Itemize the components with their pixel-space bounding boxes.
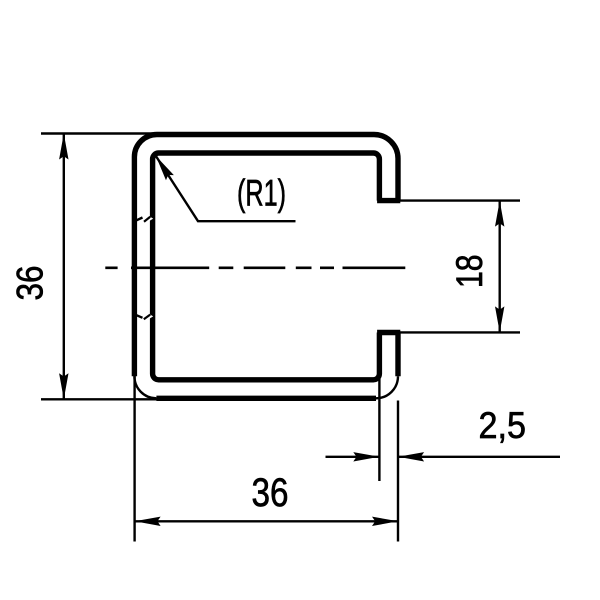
centerline (dash-dot horizontal axis) xyxy=(105,266,405,269)
wire: bottom dimension line xyxy=(135,520,398,522)
arrow up (left dim top) xyxy=(59,134,68,160)
arrow down (left dim bottom) xyxy=(59,373,68,399)
svg-text:36: 36 xyxy=(252,471,289,515)
wire: left dim top extension line xyxy=(41,132,160,134)
profile outer bottom-right corner arc (thin) xyxy=(376,376,398,398)
notch mark upper (inner left wall) xyxy=(137,216,154,222)
svg-text:36: 36 xyxy=(9,266,50,301)
profile inner contour (thick) xyxy=(153,153,380,380)
wire: left dimension line xyxy=(63,134,65,400)
arrow right (bottom dim) xyxy=(372,517,398,526)
arrow up (right dim top) xyxy=(495,201,504,227)
wire: bottom dim right extension line xyxy=(397,401,399,542)
svg-text:(R1): (R1) xyxy=(237,173,286,214)
svg-text:18: 18 xyxy=(449,255,490,289)
wire: right dim bottom extension line xyxy=(399,331,520,333)
svg-text:2,5: 2,5 xyxy=(479,405,527,446)
arrow left-pointing (2,5 right) xyxy=(398,452,424,461)
leader line of (R1) xyxy=(156,156,296,221)
wire: 2,5 dim line right part xyxy=(398,456,560,458)
profile outer right edge lower (thick) xyxy=(395,333,400,377)
profile top lip end cap xyxy=(377,198,400,203)
arrow right-pointing (2,5 left) xyxy=(353,452,379,461)
profile outer contour: right edge upper + top-right arc + top edge + top-left arc + left edge (thick) xyxy=(134,135,398,377)
profile bottom lip end cap xyxy=(377,330,400,335)
wire: 2,5 dim left extension line xyxy=(378,376,380,482)
wire: 2,5 dim line left part xyxy=(326,456,380,458)
arrow down (right dim bottom) xyxy=(495,306,504,332)
profile outer bottom edge (thick) xyxy=(156,396,376,401)
wire: right dim top extension line xyxy=(399,199,520,201)
notch mark lower (inner left wall) xyxy=(137,313,154,319)
wire: bottom dim left extension line xyxy=(133,374,135,542)
profile outer bottom-left corner arc (thin) xyxy=(134,376,156,398)
arrow left (bottom dim) xyxy=(135,517,161,526)
leader arrow (R1) xyxy=(152,153,174,180)
wire: left dim bottom extension line xyxy=(41,398,157,400)
wire: right dimension line xyxy=(499,201,501,333)
